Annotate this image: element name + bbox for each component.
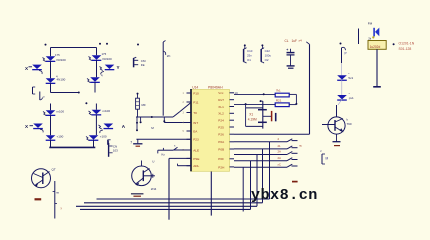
svg-text:+: + [286, 48, 288, 52]
svg-text:P2H: P2H [218, 165, 224, 169]
svg-text:KR100: KR100 [103, 57, 113, 61]
svg-text:2A: 2A [278, 150, 282, 154]
svg-text:175: 175 [102, 52, 107, 56]
svg-text:pv1: pv1 [349, 96, 354, 100]
svg-text:U: U [152, 160, 154, 164]
svg-text:P0F: P0F [218, 157, 224, 161]
svg-text:m100: m100 [57, 110, 65, 114]
svg-text:4.19M: 4.19M [248, 118, 257, 122]
svg-text:CL: CL [285, 39, 289, 43]
svg-text:+100: +100 [100, 135, 107, 139]
svg-text:Y: Y [117, 65, 120, 70]
svg-text:1u202d: 1u202d [370, 45, 381, 49]
svg-text:P26: P26 [218, 133, 224, 137]
svg-text:100u: 100u [265, 54, 272, 58]
svg-text:21: 21 [278, 144, 282, 148]
svg-text:P0A: P0A [218, 140, 225, 144]
svg-text:x4: x4 [299, 39, 303, 43]
svg-text:2N4: 2N4 [151, 187, 157, 191]
svg-text:175: 175 [55, 53, 60, 57]
svg-text:P25: P25 [218, 125, 224, 129]
svg-text:FE: FE [141, 63, 145, 67]
svg-text:P24: P24 [218, 119, 224, 123]
svg-text:P8049AH: P8049AH [208, 85, 223, 89]
svg-text:R21: R21 [276, 98, 282, 102]
svg-text:1uF: 1uF [292, 39, 298, 43]
svg-text:T0: T0 [193, 111, 197, 115]
svg-text:X1: X1 [249, 112, 253, 116]
svg-text:MF: MF [142, 103, 146, 107]
svg-text:P10: P10 [193, 91, 199, 95]
svg-text:M: M [326, 157, 329, 161]
svg-text:O1: O1 [247, 58, 251, 62]
svg-text:+100: +100 [57, 135, 64, 139]
svg-text:QT: QT [52, 168, 56, 172]
svg-text:Vcc: Vcc [218, 91, 224, 95]
svg-text:C22: C22 [265, 49, 271, 53]
svg-text:P11: P11 [193, 100, 199, 104]
svg-text:PSE: PSE [193, 157, 199, 161]
svg-text:O1201-1N: O1201-1N [399, 42, 415, 46]
svg-text:ADL: ADL [193, 164, 199, 168]
svg-text:XL2: XL2 [218, 112, 224, 116]
svg-text:C10: C10 [247, 49, 253, 53]
svg-text:XL1: XL1 [218, 105, 224, 109]
svg-text:O2: O2 [265, 58, 269, 62]
svg-text:xC: xC [278, 162, 281, 166]
svg-text:5v1: 5v1 [348, 76, 353, 80]
svg-text:FM: FM [368, 22, 373, 26]
svg-text:790: 790 [347, 122, 352, 126]
svg-text:ybx8.cn: ybx8.cn [251, 186, 318, 204]
svg-text:KR100: KR100 [57, 58, 67, 62]
svg-text:4N100: 4N100 [57, 78, 66, 82]
svg-text:P0B: P0B [218, 147, 224, 151]
svg-text:2A: 2A [278, 156, 282, 160]
svg-text:INT: INT [193, 121, 198, 125]
svg-text:P23: P23 [193, 138, 199, 142]
svg-text:103: 103 [113, 148, 118, 152]
svg-text:Kx: Kx [162, 152, 166, 156]
svg-text:P: P [345, 52, 347, 56]
svg-text:U14: U14 [192, 85, 198, 89]
svg-text:m100: m100 [103, 109, 111, 113]
svg-text:S01-128: S01-128 [399, 47, 412, 51]
svg-text:7k1: 7k1 [276, 89, 281, 93]
svg-text:ALE: ALE [193, 148, 199, 152]
svg-text:2K: 2K [167, 54, 171, 58]
svg-text:RsT: RsT [218, 98, 224, 102]
svg-text:7: 7 [130, 141, 132, 145]
svg-text:25v: 25v [247, 54, 252, 58]
